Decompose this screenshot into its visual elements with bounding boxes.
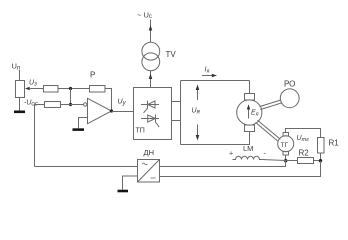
feedback resistor Uoc — [45, 102, 61, 108]
ground under potentiometer — [14, 111, 25, 114]
wire TV to TP box — [150, 71, 152, 88]
thyristor converter TP box — [134, 88, 172, 140]
pot wiper arrow — [25, 87, 30, 91]
svg-text:РО: РО — [284, 80, 295, 89]
svg-text:R2: R2 — [299, 149, 310, 158]
label DN — [144, 148, 155, 157]
junction dot TG bottom — [284, 159, 287, 162]
wire DN output to feedback riser — [35, 166, 138, 168]
voltage arrow down — [197, 125, 199, 138]
op-amp U1 triangle — [88, 98, 112, 123]
wire TP upper output stub — [172, 101, 181, 103]
label R2 — [299, 149, 310, 158]
feedback resistor P — [90, 86, 106, 93]
wire TP lower output stub — [172, 120, 181, 122]
svg-text:-Uос: -Uос — [24, 100, 38, 108]
motor M armature circle — [237, 100, 262, 125]
TG top brush — [283, 133, 289, 137]
voltage sensor DN box — [138, 160, 160, 183]
shaft to working body PO — [260, 100, 282, 107]
label Ud — [192, 108, 201, 116]
tachogenerator TG circle — [278, 136, 294, 152]
dc bus vertical wire — [180, 81, 182, 145]
voltage arrow up — [197, 87, 199, 100]
svg-text:Uя: Uя — [192, 108, 201, 116]
node vertical link wire — [70, 89, 72, 105]
label Uy — [118, 99, 127, 107]
potentiometer RP — [16, 81, 25, 98]
TG bottom brush — [283, 152, 289, 156]
svg-text:Р: Р — [90, 71, 95, 80]
svg-text:Iя: Iя — [205, 67, 210, 75]
motor top brush — [245, 94, 255, 101]
label Ia — [205, 67, 210, 75]
resistor R1 — [318, 138, 325, 154]
label -Uoc — [24, 100, 38, 108]
arrow up on supply wire — [149, 25, 153, 31]
svg-text:LM: LM — [243, 144, 253, 153]
working body PO circle — [280, 89, 299, 108]
svg-text:Ея: Ея — [251, 110, 259, 118]
DN dc mark — [151, 177, 156, 179]
wire P resistor to output corner — [105, 89, 112, 112]
svg-text:TV: TV — [166, 50, 177, 59]
wire R1 bottom stub — [320, 153, 322, 161]
resistor (setpoint) — [44, 86, 59, 93]
label P — [90, 71, 95, 80]
DN ac mark — [142, 163, 147, 165]
wire op-amp output to TP — [112, 111, 134, 113]
label Uz — [29, 80, 37, 88]
junction dot under R1 — [319, 159, 322, 162]
wire R2 to R1 junction — [314, 160, 321, 162]
label PO — [284, 80, 295, 89]
wire TG top to R1 — [286, 129, 321, 138]
wire DN sense input upper — [160, 161, 286, 167]
wire DN sense input lower — [160, 161, 321, 177]
wire non-inverting input to ground — [79, 118, 88, 129]
label Utg — [297, 135, 310, 143]
svg-text:Uтг: Uтг — [297, 135, 310, 143]
node dot top — [69, 87, 72, 90]
op-amp U1 inverting input bubble — [84, 103, 87, 106]
label TP — [136, 128, 145, 135]
ground under op-amp — [73, 128, 85, 131]
wire pot bottom to ground — [19, 98, 21, 112]
svg-text:ДН: ДН — [144, 148, 155, 157]
wire resistor to node — [61, 104, 84, 106]
svg-text:Uз: Uз — [29, 80, 37, 88]
plus mark — [229, 151, 233, 158]
field winding LM coil — [233, 156, 286, 160]
wire feedback vertical riser to resistor — [35, 104, 45, 106]
emf arrow inside motor — [248, 107, 250, 119]
label Ea — [251, 110, 259, 118]
DN diagonal — [138, 160, 160, 183]
feedback riser wire — [34, 105, 36, 167]
wire Un stub to potentiometer — [19, 70, 21, 81]
svg-text:ТГ: ТГ — [281, 142, 289, 149]
output junction dot — [110, 109, 113, 112]
svg-text:ТП: ТП — [136, 128, 145, 135]
wire junction to R2 — [286, 160, 298, 162]
armature bottom wire — [181, 132, 250, 145]
wire motor top lead — [249, 81, 251, 94]
resistor R2 — [298, 158, 314, 164]
wire resistor to summing node — [58, 88, 90, 90]
label TG — [281, 142, 289, 149]
label R1 — [329, 139, 340, 148]
thyristor VS1 — [141, 104, 159, 106]
arrow up on TP feed wire — [149, 74, 153, 80]
node dot bottom — [69, 103, 72, 106]
transformer TV primary winding — [142, 42, 160, 60]
wire Uc to transformer TV — [150, 20, 152, 43]
current arrow Ia — [202, 75, 214, 77]
label Un — [12, 62, 21, 72]
ground under DN — [118, 190, 129, 193]
wire wiper to resistor Uz — [29, 88, 44, 90]
transformer TV secondary winding — [142, 53, 160, 71]
label ~Uc — [137, 11, 152, 21]
svg-text:Uу: Uу — [118, 99, 127, 107]
label LM — [243, 144, 253, 153]
motor bottom brush — [245, 125, 255, 132]
shaft to tacho TG — [258, 120, 281, 139]
label TV — [166, 50, 177, 59]
wire DN ground tap — [123, 176, 138, 190]
svg-text:R1: R1 — [329, 139, 340, 148]
svg-text:+: + — [229, 151, 233, 158]
thyristor VS2 — [141, 118, 159, 120]
wire TG bottom to junction — [285, 155, 287, 161]
armature top wire — [181, 80, 250, 82]
minus mark — [264, 151, 267, 158]
